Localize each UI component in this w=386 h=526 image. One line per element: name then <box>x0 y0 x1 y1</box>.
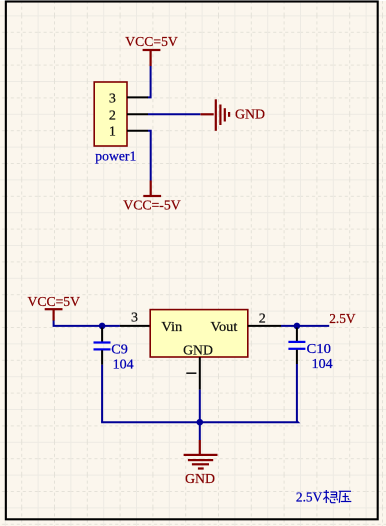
regulator U (Vin/Vout/GND) <box>150 310 248 359</box>
svg-text:C10: C10 <box>307 342 332 357</box>
connector power1 <box>94 82 136 165</box>
title 2.5V稳压 <box>296 490 351 506</box>
svg-text:VCC=5V: VCC=5V <box>125 35 178 50</box>
svg-text:3: 3 <box>131 311 138 326</box>
junction (C9 / Vin) <box>99 323 106 330</box>
svg-text:104: 104 <box>113 358 134 373</box>
ground GND (top, bar style) <box>201 99 266 131</box>
svg-text:VCC=-5V: VCC=-5V <box>123 199 180 214</box>
svg-text:GND: GND <box>183 344 213 359</box>
svg-text:Vout: Vout <box>211 320 238 335</box>
power symbol VCC=5V (bottom-left) <box>28 295 81 321</box>
capacitor C9 <box>94 328 111 365</box>
wire VCC=5V to regulator Vin <box>54 321 120 326</box>
pin 1 <box>109 125 148 140</box>
svg-text:2.5V: 2.5V <box>296 491 322 506</box>
power symbol VCC=5V (top) <box>125 35 178 66</box>
glyph 压 <box>339 491 352 503</box>
junction (bottom rail / GND) <box>197 419 204 426</box>
svg-text:2: 2 <box>109 108 116 123</box>
svg-text:C9: C9 <box>111 343 128 358</box>
ground GND (bottom, earth) <box>184 440 218 487</box>
svg-text:Vin: Vin <box>161 320 182 335</box>
capacitor C10 <box>288 328 305 365</box>
wire Vout to 2.5V <box>281 325 329 327</box>
wire GND pin to bottom rail <box>199 390 201 423</box>
glyph 稳 <box>323 490 337 503</box>
junction (C10 / Vout) <box>294 323 301 330</box>
svg-text:GND: GND <box>185 472 215 487</box>
svg-text:2: 2 <box>259 312 266 327</box>
svg-text:104: 104 <box>312 357 333 372</box>
svg-text:GND: GND <box>235 108 265 123</box>
wire C9 to bottom rail <box>101 365 103 422</box>
svg-text:1: 1 <box>109 125 116 140</box>
power symbol VCC=-5V <box>123 181 180 214</box>
pin 3 <box>109 91 148 106</box>
regulator pin 2 (Vout) <box>248 312 281 327</box>
wire C10 to bottom rail <box>296 364 298 422</box>
wire VCC=5V to pin 3 <box>148 66 151 97</box>
wire pin 1 to VCC=-5V <box>148 131 151 181</box>
regulator GND pin (down) <box>186 357 200 390</box>
wire to ground <box>199 422 201 440</box>
pin 2 <box>109 108 148 123</box>
wire pin 2 to GND <box>148 113 200 115</box>
wire bottom rail <box>102 421 298 422</box>
svg-text:2.5V: 2.5V <box>329 312 355 327</box>
regulator pin 3 (Vin) <box>120 311 150 326</box>
svg-text:VCC=5V: VCC=5V <box>28 295 81 310</box>
svg-text:power1: power1 <box>95 150 136 165</box>
svg-text:3: 3 <box>109 91 116 106</box>
